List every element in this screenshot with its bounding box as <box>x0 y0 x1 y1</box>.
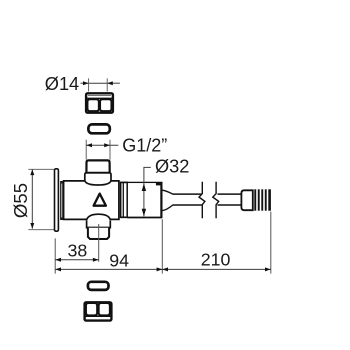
wall plate <box>55 169 59 231</box>
arrowheads Ø14 <box>83 81 113 85</box>
extension line middle <box>161 219 163 273</box>
extension lines Ø55 <box>28 169 54 229</box>
notch on cylinder <box>156 182 162 185</box>
extension line right <box>270 212 272 274</box>
break line 2 <box>213 182 219 219</box>
washer top <box>88 124 109 133</box>
hex nut top <box>86 93 113 112</box>
measure arrow Ø32 <box>143 183 145 216</box>
pipe segment 1 <box>173 194 202 205</box>
dimension line 38 <box>55 259 98 261</box>
bell bottom <box>87 220 111 227</box>
extension lines G1/2 <box>86 140 110 160</box>
leader Ø32 <box>144 167 151 183</box>
svg-text:210: 210 <box>201 249 231 269</box>
dimension line Ø55 <box>31 169 33 228</box>
cartridge cylinder Ø32 <box>127 182 162 217</box>
arrowheads G1/2 <box>86 143 110 147</box>
valve body <box>64 181 119 220</box>
dome arc bottom <box>87 214 111 220</box>
hose collar <box>241 190 252 210</box>
dimension line G1/2 <box>86 144 118 146</box>
dome arc top <box>85 181 111 185</box>
extension lines Ø14 <box>89 78 108 91</box>
triangle marker <box>94 194 106 206</box>
svg-text:Ø14: Ø14 <box>45 74 79 94</box>
dimension line 94 / 210 <box>55 268 271 270</box>
break line 1 <box>199 182 205 219</box>
hub <box>60 181 63 220</box>
svg-text:38: 38 <box>68 241 88 261</box>
svg-text:Ø32: Ø32 <box>155 156 189 176</box>
inlet pipe G1/2 thread <box>86 160 109 172</box>
arrowheads Ø55 <box>30 169 34 228</box>
hex nut bottom <box>85 302 112 320</box>
dimension line Ø14 <box>81 82 120 84</box>
extension line left <box>54 238 56 273</box>
ring band <box>121 182 128 217</box>
hose ribs <box>254 189 271 210</box>
washer bottom <box>88 282 109 290</box>
center line <box>98 224 100 262</box>
cone <box>162 190 172 210</box>
outlet pipe bottom <box>88 228 109 239</box>
collar top <box>85 173 111 181</box>
pipe segment 2 <box>218 194 242 205</box>
svg-text:94: 94 <box>109 251 129 271</box>
svg-text:Ø55: Ø55 <box>10 183 31 218</box>
svg-text:G1/2”: G1/2” <box>122 135 167 155</box>
